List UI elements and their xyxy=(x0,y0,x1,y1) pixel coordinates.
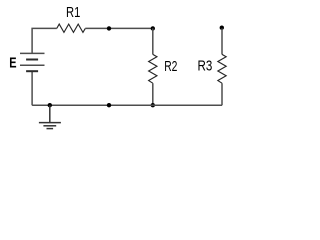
battery E: negative short plate (cell 2) xyxy=(26,70,38,72)
node: R2 bottom junction dot xyxy=(151,103,155,107)
svg-text:R2: R2 xyxy=(164,59,177,75)
wire: battery negative terminal down to bottom rail xyxy=(31,71,33,105)
node: junction dot on bottom rail xyxy=(107,103,111,107)
wire: R2 down to bottom rail xyxy=(152,83,154,105)
wire: bottom rail xyxy=(32,104,222,106)
label R2 xyxy=(164,59,177,75)
resistor R2 xyxy=(149,54,157,83)
svg-text:R1: R1 xyxy=(66,5,80,21)
svg-text:R3: R3 xyxy=(198,59,213,75)
wire: battery positive terminal up and across to R1 xyxy=(32,28,57,53)
node: R3 top terminal dot xyxy=(220,26,224,30)
label R3 xyxy=(198,59,213,75)
battery E: positive long plate (cell 2) xyxy=(20,64,45,66)
node: ground junction dot xyxy=(48,103,52,107)
wire: R1 to R2 branch (top rail) xyxy=(85,27,153,29)
node: dot at R2 branch corner xyxy=(151,26,155,30)
node: junction dot on top rail xyxy=(107,26,111,30)
battery E: negative short plate (cell 1) xyxy=(26,59,38,61)
label E xyxy=(9,55,16,72)
wire: R3 top stub xyxy=(221,28,223,54)
resistor R1 xyxy=(57,24,86,32)
resistor R3 xyxy=(218,54,226,83)
label R1 xyxy=(66,5,80,21)
svg-text:E: E xyxy=(9,55,16,72)
wire: down from top rail to R2 xyxy=(152,28,154,54)
wire: R3 down to bottom rail xyxy=(221,83,223,105)
ground xyxy=(39,105,61,128)
battery E: positive long plate (cell 1) xyxy=(20,52,45,54)
